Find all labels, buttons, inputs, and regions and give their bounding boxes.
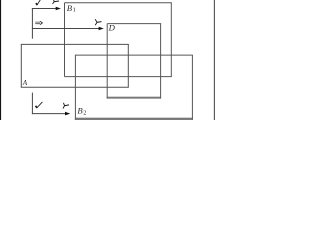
check mark top [36, 0, 41, 5]
right page border [213, 0, 215, 120]
box B2 [75, 55, 193, 120]
succ symbol bottom [63, 103, 69, 109]
box D [107, 24, 161, 99]
bracket for bottom annotations [31, 93, 33, 115]
succ symbol middle [95, 19, 101, 25]
succ symbol top [53, 0, 60, 4]
bracket for top annotations [31, 8, 33, 39]
box B1 [65, 3, 172, 77]
arrow into D [32, 28, 100, 30]
svg-text:A: A [22, 79, 28, 87]
arrow into B2 [32, 113, 66, 115]
svg-text:D: D [108, 23, 116, 33]
svg-text:1: 1 [73, 6, 76, 13]
left page border [0, 0, 1, 120]
check mark bottom [36, 102, 43, 108]
double arrow symbol [35, 22, 40, 24]
arrow into B1 [32, 8, 57, 10]
box A [21, 44, 129, 87]
svg-text:2: 2 [83, 110, 86, 117]
